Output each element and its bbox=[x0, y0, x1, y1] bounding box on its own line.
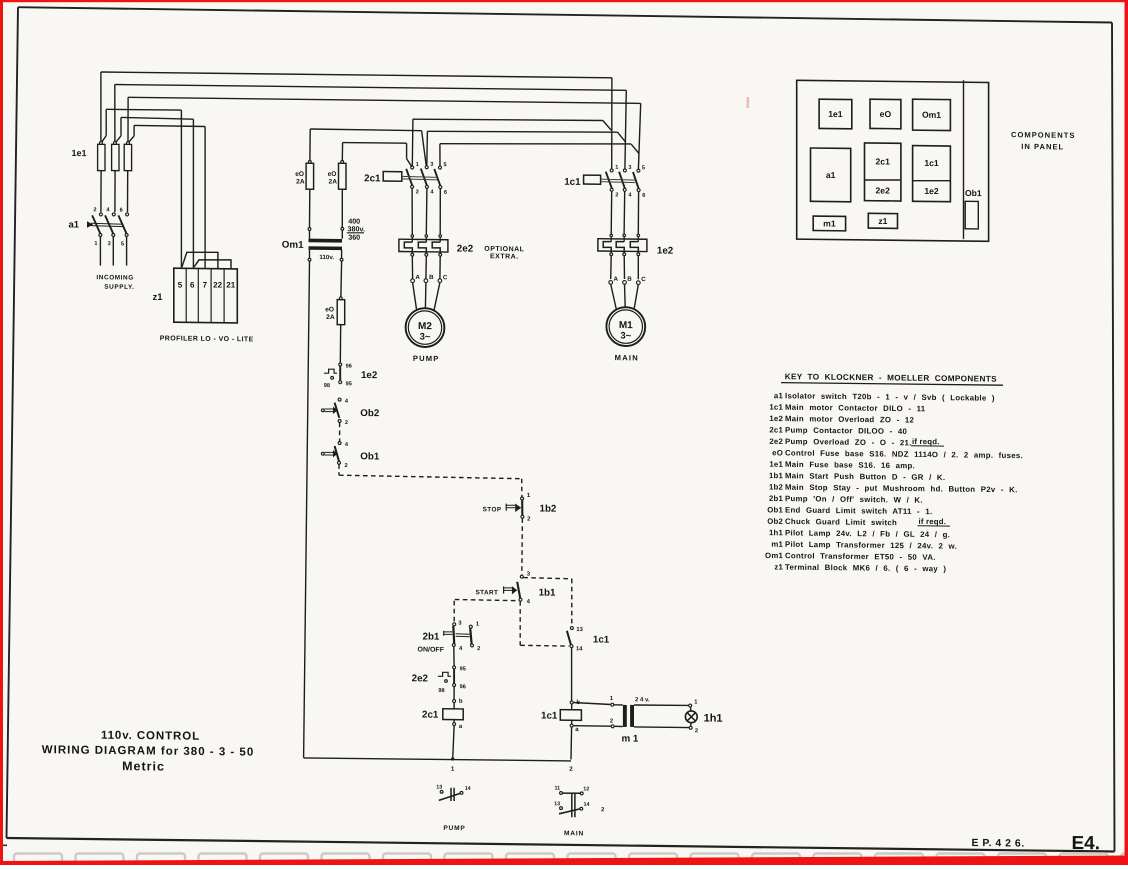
svg-text:Pump Contactor DILOO - 40: Pump Contactor DILOO - 40 bbox=[785, 426, 908, 436]
svg-text:B: B bbox=[429, 274, 434, 281]
svg-text:1h1: 1h1 bbox=[769, 528, 783, 537]
svg-text:95: 95 bbox=[460, 666, 466, 672]
svg-text:1: 1 bbox=[615, 165, 618, 171]
svg-text:2: 2 bbox=[615, 192, 618, 198]
svg-text:2A: 2A bbox=[296, 179, 305, 186]
svg-text:Main motor Overload ZO -: Main motor Overload ZO - 12 bbox=[785, 414, 915, 424]
svg-text:Terminal Block MK6 / 6. ( 6: Terminal Block MK6 / 6. ( 6 - way ) bbox=[785, 563, 946, 574]
svg-text:6: 6 bbox=[642, 193, 645, 199]
svg-text:3~: 3~ bbox=[620, 331, 631, 342]
svg-text:1b2: 1b2 bbox=[769, 483, 783, 492]
svg-text:PUMP: PUMP bbox=[413, 354, 440, 363]
svg-text:Pilot Lamp 24v. L2 / Fb / G: Pilot Lamp 24v. L2 / Fb / GL 24 / g. bbox=[785, 528, 950, 539]
svg-text:Pump Overload ZO - O - 21.: Pump Overload ZO - O - 21. bbox=[785, 437, 912, 447]
svg-text:a1: a1 bbox=[774, 391, 784, 400]
svg-text:1e2: 1e2 bbox=[657, 246, 674, 257]
svg-text:a1: a1 bbox=[826, 170, 836, 180]
svg-text:INCOMING: INCOMING bbox=[96, 274, 133, 281]
svg-text:21: 21 bbox=[226, 280, 235, 289]
svg-text:Main motor Contactor DILO -: Main motor Contactor DILO - 11 bbox=[785, 403, 926, 414]
svg-text:2: 2 bbox=[477, 646, 480, 652]
svg-text:M1: M1 bbox=[619, 320, 633, 331]
svg-text:3~: 3~ bbox=[420, 332, 431, 343]
svg-text:a1: a1 bbox=[69, 219, 80, 230]
svg-text:360: 360 bbox=[348, 233, 360, 242]
svg-text:3: 3 bbox=[628, 165, 631, 171]
svg-text:1b1: 1b1 bbox=[769, 471, 783, 480]
svg-text:Main Start Push Button D -: Main Start Push Button D - GR / K. bbox=[785, 471, 945, 482]
svg-text:6: 6 bbox=[444, 190, 447, 196]
svg-text:2A: 2A bbox=[326, 314, 335, 321]
svg-text:14: 14 bbox=[584, 802, 590, 808]
svg-text:5: 5 bbox=[178, 280, 183, 289]
svg-text:z1: z1 bbox=[153, 292, 164, 303]
svg-text:m 1: m 1 bbox=[622, 733, 639, 744]
svg-text:14: 14 bbox=[576, 646, 583, 652]
svg-text:z1: z1 bbox=[774, 563, 783, 572]
svg-text:A: A bbox=[614, 276, 619, 283]
svg-text:110v.: 110v. bbox=[319, 254, 334, 261]
svg-text:1e2: 1e2 bbox=[924, 186, 939, 196]
svg-text:2c1: 2c1 bbox=[876, 156, 891, 166]
svg-text:STOP: STOP bbox=[483, 506, 502, 513]
svg-text:eO: eO bbox=[328, 171, 337, 178]
svg-text:1e1: 1e1 bbox=[769, 460, 783, 469]
svg-text:PROFILER LO - VO - LITE: PROFILER LO - VO - LITE bbox=[160, 335, 254, 343]
svg-text:96: 96 bbox=[460, 684, 466, 690]
svg-text:Ob1: Ob1 bbox=[965, 188, 982, 198]
svg-text:12: 12 bbox=[583, 786, 589, 792]
svg-text:START: START bbox=[475, 589, 498, 596]
svg-text:C: C bbox=[641, 276, 646, 283]
svg-text:MAIN: MAIN bbox=[564, 830, 584, 837]
svg-text:13: 13 bbox=[436, 785, 442, 791]
svg-text:1e2: 1e2 bbox=[361, 370, 378, 381]
svg-text:2 4 v.: 2 4 v. bbox=[635, 697, 650, 703]
svg-text:5: 5 bbox=[444, 162, 447, 168]
svg-text:B: B bbox=[627, 276, 632, 283]
svg-text:13: 13 bbox=[576, 627, 583, 633]
svg-text:98: 98 bbox=[438, 688, 444, 694]
svg-text:2e2: 2e2 bbox=[769, 437, 783, 446]
svg-text:2A: 2A bbox=[329, 178, 338, 185]
svg-text:6: 6 bbox=[120, 208, 123, 214]
svg-text:1e1: 1e1 bbox=[828, 109, 843, 119]
svg-text:110v. CONTROL: 110v. CONTROL bbox=[101, 730, 200, 743]
svg-text:3: 3 bbox=[430, 162, 433, 168]
svg-text:1c1: 1c1 bbox=[769, 403, 783, 412]
svg-text:WIRING DIAGRAM for 380 -: WIRING DIAGRAM for 380 - 3 - 50 bbox=[42, 744, 254, 758]
svg-text:z1: z1 bbox=[878, 216, 887, 226]
svg-text:eO: eO bbox=[295, 171, 304, 178]
svg-text:eO: eO bbox=[325, 306, 334, 313]
svg-text:Ob1: Ob1 bbox=[767, 505, 783, 514]
svg-text:1: 1 bbox=[451, 766, 455, 773]
svg-text:7: 7 bbox=[203, 280, 208, 289]
svg-text:1c1: 1c1 bbox=[593, 634, 610, 645]
svg-text:E P. 4 2 6.: E P. 4 2 6. bbox=[972, 837, 1025, 850]
svg-text:95: 95 bbox=[346, 381, 352, 387]
svg-text:2c1: 2c1 bbox=[422, 710, 439, 721]
svg-text:eO: eO bbox=[772, 448, 783, 457]
svg-text:2: 2 bbox=[610, 718, 613, 724]
svg-text:2: 2 bbox=[695, 728, 698, 734]
svg-text:OPTIONAL: OPTIONAL bbox=[484, 246, 524, 253]
svg-text:2c1: 2c1 bbox=[769, 425, 783, 434]
svg-text:End Guard Limit switch AT1: End Guard Limit switch AT11 - 1. bbox=[785, 505, 932, 516]
svg-text:1c1: 1c1 bbox=[564, 177, 581, 188]
svg-text:A: A bbox=[415, 274, 420, 281]
svg-text:Om1: Om1 bbox=[765, 551, 783, 560]
svg-text:Ob1: Ob1 bbox=[360, 451, 380, 462]
svg-text:14: 14 bbox=[465, 786, 471, 792]
svg-text:2e2: 2e2 bbox=[876, 185, 891, 195]
svg-text:Metric: Metric bbox=[122, 759, 165, 773]
svg-text:3: 3 bbox=[108, 241, 111, 247]
svg-text:96: 96 bbox=[346, 364, 352, 370]
svg-text:1b1: 1b1 bbox=[539, 588, 556, 599]
svg-text:C: C bbox=[443, 274, 448, 281]
svg-text:m1: m1 bbox=[823, 218, 836, 228]
svg-text:2b1: 2b1 bbox=[769, 494, 783, 503]
svg-text:Control Transformer ET50 - 5: Control Transformer ET50 - 50 VA. bbox=[785, 551, 936, 562]
svg-text:Om1: Om1 bbox=[922, 110, 941, 120]
svg-text:2: 2 bbox=[416, 189, 419, 195]
svg-text:EXTRA.: EXTRA. bbox=[490, 253, 519, 260]
svg-text:2: 2 bbox=[93, 207, 96, 213]
svg-text:5: 5 bbox=[642, 165, 645, 171]
svg-text:1c1: 1c1 bbox=[541, 711, 558, 722]
svg-text:Om1: Om1 bbox=[282, 240, 304, 251]
svg-text:Ob2: Ob2 bbox=[360, 408, 380, 419]
svg-text:1h1: 1h1 bbox=[704, 713, 723, 725]
svg-text:if reqd.: if reqd. bbox=[919, 517, 947, 526]
svg-text:2e2: 2e2 bbox=[412, 673, 429, 684]
svg-text:Main Fuse base S16. 16 am: Main Fuse base S16. 16 amp. bbox=[785, 460, 915, 470]
svg-text:1e2: 1e2 bbox=[769, 414, 783, 423]
svg-text:5: 5 bbox=[121, 241, 124, 247]
svg-text:Pump 'On / Off' switch. W /: Pump 'On / Off' switch. W / K. bbox=[785, 494, 923, 505]
svg-text:1: 1 bbox=[416, 162, 419, 168]
svg-text:1b2: 1b2 bbox=[540, 504, 557, 515]
svg-text:eO: eO bbox=[880, 109, 892, 119]
svg-text:2b1: 2b1 bbox=[423, 632, 440, 643]
svg-text:1: 1 bbox=[94, 241, 97, 247]
svg-text:11: 11 bbox=[554, 786, 560, 792]
svg-text:M2: M2 bbox=[418, 321, 432, 332]
svg-text:2: 2 bbox=[345, 420, 348, 426]
svg-text:ON/OFF: ON/OFF bbox=[418, 646, 445, 653]
svg-text:6: 6 bbox=[190, 280, 195, 289]
svg-text:b: b bbox=[459, 699, 463, 705]
svg-text:if reqd.: if reqd. bbox=[912, 437, 940, 446]
svg-text:COMPONENTS: COMPONENTS bbox=[1011, 130, 1075, 140]
svg-text:1e1: 1e1 bbox=[72, 148, 87, 158]
svg-text:22: 22 bbox=[213, 280, 222, 289]
svg-text:Chuck Guard Limit switch: Chuck Guard Limit switch bbox=[785, 517, 897, 527]
svg-text:2e2: 2e2 bbox=[457, 244, 474, 255]
svg-text:2: 2 bbox=[569, 766, 573, 773]
svg-text:IN PANEL: IN PANEL bbox=[1021, 142, 1064, 151]
svg-text:2c1: 2c1 bbox=[364, 173, 381, 184]
svg-text:MAIN: MAIN bbox=[615, 353, 639, 362]
svg-text:Ob2: Ob2 bbox=[767, 517, 783, 526]
svg-text:m1: m1 bbox=[771, 540, 783, 549]
svg-text:13: 13 bbox=[554, 801, 560, 807]
svg-text:PUMP: PUMP bbox=[443, 825, 465, 832]
svg-text:1c1: 1c1 bbox=[924, 158, 939, 168]
svg-text:2: 2 bbox=[345, 463, 348, 469]
svg-text:98: 98 bbox=[324, 383, 330, 389]
svg-text:SUPPLY.: SUPPLY. bbox=[104, 284, 134, 291]
